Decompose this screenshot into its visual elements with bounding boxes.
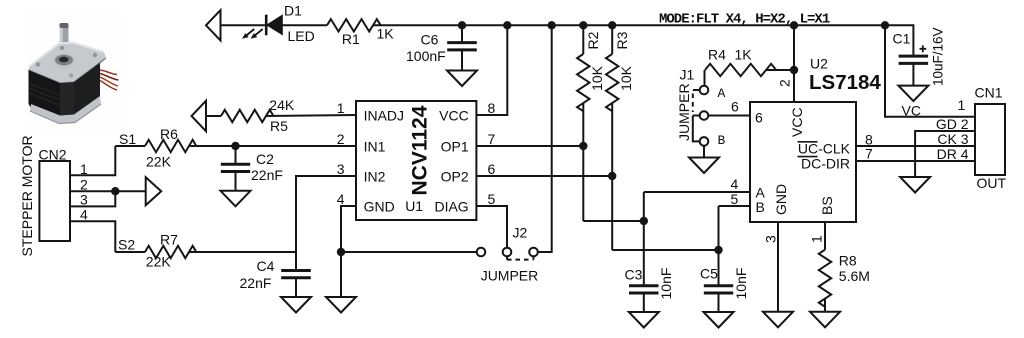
svg-text:VC: VC bbox=[902, 103, 921, 119]
svg-text:3: 3 bbox=[80, 192, 88, 208]
ground C2 bbox=[221, 191, 251, 207]
svg-text:C4: C4 bbox=[257, 258, 275, 274]
svg-text:4: 4 bbox=[731, 176, 739, 192]
svg-text:2: 2 bbox=[777, 79, 793, 87]
svg-text:1: 1 bbox=[337, 100, 345, 116]
svg-text:5: 5 bbox=[731, 191, 739, 207]
wire C6 top bbox=[461, 25, 463, 42]
wire S1 left bbox=[115, 145, 145, 147]
wire OP1 bbox=[476, 145, 583, 147]
svg-text:R6: R6 bbox=[160, 126, 178, 142]
ground U1 bbox=[326, 297, 356, 313]
svg-text:OP2: OP2 bbox=[441, 169, 469, 185]
jumper J2 pad2 bbox=[503, 248, 512, 257]
ground C6 bbox=[447, 71, 477, 87]
svg-text:STEPPER MOTOR: STEPPER MOTOR bbox=[19, 135, 35, 256]
svg-text:2: 2 bbox=[337, 131, 345, 147]
svg-text:MODE:FLT X4, H=X2, L=X1: MODE:FLT X4, H=X2, L=X1 bbox=[659, 12, 830, 28]
wire GD bbox=[915, 131, 975, 177]
wire OP2 bbox=[476, 175, 612, 177]
svg-text:22K: 22K bbox=[146, 154, 172, 170]
svg-text:R4: R4 bbox=[708, 47, 726, 63]
svg-text:C5: C5 bbox=[700, 265, 718, 281]
J2 dashed link bbox=[507, 259, 534, 261]
svg-text:22nF: 22nF bbox=[251, 167, 283, 183]
svg-text:S2: S2 bbox=[118, 237, 135, 253]
capacitor C2 bbox=[221, 164, 250, 171]
svg-text:24K: 24K bbox=[269, 97, 295, 113]
svg-text:CN2: CN2 bbox=[39, 147, 67, 163]
svg-text:10K: 10K bbox=[589, 65, 605, 91]
svg-text:6: 6 bbox=[755, 110, 763, 126]
wire J1 A stub bbox=[693, 89, 700, 91]
svg-text:GD 2: GD 2 bbox=[936, 116, 969, 132]
diode D1 LED bbox=[242, 15, 282, 39]
node GND net bbox=[337, 248, 345, 256]
J2 link stubs bbox=[506, 256, 508, 259]
svg-text:U1: U1 bbox=[405, 198, 423, 214]
svg-text:7: 7 bbox=[865, 145, 873, 161]
wire arrow to R5 bbox=[206, 115, 221, 117]
node rail R2 bbox=[579, 21, 587, 29]
svg-text:1: 1 bbox=[958, 97, 966, 113]
wire arrow to LED bbox=[221, 24, 267, 26]
wire R4 to VCC riser bbox=[766, 69, 794, 71]
svg-text:S1: S1 bbox=[119, 131, 136, 147]
wire C5 gnd bbox=[718, 293, 720, 312]
wire C4 top bbox=[295, 252, 297, 271]
wire U2 VCC riser bbox=[793, 25, 795, 102]
capacitor C3 bbox=[629, 286, 659, 293]
svg-text:5.6M: 5.6M bbox=[839, 268, 870, 284]
svg-text:22nF: 22nF bbox=[240, 275, 272, 291]
connector CN1 bbox=[975, 104, 1005, 175]
wire CN2 pin2 bbox=[70, 190, 146, 192]
svg-text:JUMPER: JUMPER bbox=[676, 83, 692, 141]
resistor R7 bbox=[145, 246, 196, 258]
wire C2 top bbox=[235, 146, 237, 164]
svg-text:A: A bbox=[718, 86, 726, 101]
resistor R4 bbox=[705, 64, 776, 76]
svg-text:GND: GND bbox=[773, 184, 789, 215]
svg-text:R7: R7 bbox=[160, 231, 178, 247]
capacitor C6 bbox=[447, 43, 477, 50]
svg-text:1K: 1K bbox=[735, 47, 753, 63]
wire U2 B bbox=[719, 205, 751, 207]
wire R5 to INADJ bbox=[266, 115, 356, 116]
resistor R3 bbox=[606, 25, 719, 250]
svg-text:IN2: IN2 bbox=[364, 169, 386, 185]
svg-text:D1: D1 bbox=[284, 2, 302, 18]
node R4 VCC bbox=[790, 66, 798, 74]
svg-text:R3: R3 bbox=[614, 31, 630, 49]
svg-text:6: 6 bbox=[488, 161, 496, 177]
svg-text:C6: C6 bbox=[421, 32, 439, 48]
svg-text:INADJ: INADJ bbox=[364, 108, 404, 124]
wire A net bbox=[643, 192, 645, 286]
svg-text:3: 3 bbox=[337, 161, 345, 177]
arrow R5 return bbox=[192, 101, 207, 131]
IC U2 box bbox=[750, 102, 856, 222]
svg-text:R1: R1 bbox=[342, 31, 360, 47]
svg-text:VCC: VCC bbox=[789, 107, 805, 137]
arrow LED return bbox=[206, 10, 221, 40]
node CN2 pins 2-3 bbox=[111, 187, 119, 195]
wire J1 mid stub bbox=[693, 115, 700, 117]
J1 dashed link bbox=[692, 94, 694, 113]
resistor R8 bbox=[819, 250, 831, 307]
node rail U1VCC bbox=[503, 21, 511, 29]
ground C4 bbox=[281, 297, 311, 313]
jumper J1 padA bbox=[700, 86, 709, 95]
wire U2 DIR bbox=[856, 160, 975, 162]
svg-text:10K: 10K bbox=[618, 65, 634, 91]
connector CN2 bbox=[39, 161, 70, 241]
ground C5 bbox=[704, 312, 734, 328]
ground C1 bbox=[898, 86, 928, 102]
svg-text:DC-DIR: DC-DIR bbox=[801, 155, 850, 171]
node OP2 R3 bbox=[608, 172, 616, 180]
svg-text:C1: C1 bbox=[893, 31, 911, 47]
wire C2 bottom bbox=[235, 172, 237, 191]
node C2 junction bbox=[231, 142, 239, 150]
wire CN2 pin3 bbox=[70, 191, 115, 206]
U2 UC-CLK bbox=[798, 141, 851, 157]
wire C3 gnd bbox=[643, 293, 645, 312]
svg-text:22K: 22K bbox=[146, 254, 172, 270]
capacitor C4 bbox=[281, 271, 311, 278]
node rail J2 bbox=[548, 21, 556, 29]
svg-text:3: 3 bbox=[763, 235, 779, 243]
IC U1 box bbox=[356, 101, 476, 220]
jumper J1 pad mid bbox=[700, 111, 709, 120]
svg-text:IN1: IN1 bbox=[364, 139, 386, 155]
jumper J2 pad3 bbox=[529, 248, 538, 257]
node rail R4 bbox=[790, 21, 798, 29]
node rail VC bbox=[881, 21, 889, 29]
node rail R3 bbox=[608, 21, 616, 29]
ground GD bbox=[900, 177, 930, 193]
wire R7 to IN2 node bbox=[189, 251, 296, 253]
wire J1 A to R4 bbox=[704, 70, 706, 86]
svg-text:10uF/16V: 10uF/16V bbox=[931, 27, 946, 86]
wire CN2 pin4 to S2 bbox=[70, 221, 115, 252]
svg-text:DIAG: DIAG bbox=[434, 199, 468, 215]
wire VC bbox=[885, 25, 975, 116]
svg-text:OP1: OP1 bbox=[441, 139, 469, 155]
svg-text:J2: J2 bbox=[513, 225, 528, 241]
resistor R5 bbox=[221, 110, 274, 122]
svg-text:8: 8 bbox=[488, 100, 496, 116]
resistor R6 bbox=[145, 140, 196, 152]
svg-text:OUT: OUT bbox=[977, 175, 1007, 191]
svg-text:R5: R5 bbox=[270, 118, 288, 134]
stepper motor photo bbox=[23, 12, 123, 130]
wire top rail bbox=[373, 25, 913, 56]
wire U2 GND pin bbox=[777, 222, 779, 312]
svg-text:10nF: 10nF bbox=[733, 268, 749, 300]
svg-text:VCC: VCC bbox=[439, 108, 469, 124]
svg-text:DR 4: DR 4 bbox=[937, 146, 969, 162]
C1 plus bbox=[920, 45, 927, 52]
svg-text:CK 3: CK 3 bbox=[937, 131, 968, 147]
resistor R2 bbox=[577, 25, 644, 221]
wire S2 left bbox=[115, 251, 145, 253]
svg-text:C2: C2 bbox=[256, 151, 274, 167]
node B net bbox=[714, 246, 722, 254]
wire U2 A bbox=[644, 191, 750, 193]
wire LED to R1 bbox=[282, 24, 327, 26]
svg-text:7: 7 bbox=[488, 131, 496, 147]
svg-text:NCV1124: NCV1124 bbox=[409, 105, 432, 195]
svg-text:10nF: 10nF bbox=[658, 268, 674, 300]
wire U2 BS pin bbox=[824, 222, 826, 250]
wire R6 to IN1 bbox=[189, 145, 356, 147]
svg-text:4: 4 bbox=[337, 191, 345, 207]
node rail C6 bbox=[458, 21, 466, 29]
wire J1 mid-B link bbox=[693, 116, 700, 142]
svg-text:5: 5 bbox=[488, 191, 496, 207]
resistor R1 bbox=[327, 19, 381, 31]
ground U2 bbox=[763, 312, 793, 328]
jumper J1 padB bbox=[700, 137, 709, 146]
arrow CN2 common bbox=[146, 177, 162, 205]
wire IN2 riser bbox=[296, 176, 356, 252]
jumper J2 pad1 bbox=[477, 248, 486, 257]
svg-text:1: 1 bbox=[809, 235, 825, 243]
svg-text:6: 6 bbox=[731, 99, 739, 115]
wire DIAG bbox=[476, 206, 507, 248]
svg-text:100nF: 100nF bbox=[406, 48, 446, 64]
ground C3 bbox=[629, 312, 659, 328]
U2 DC-DIR bbox=[798, 155, 851, 171]
svg-text:J1: J1 bbox=[680, 67, 695, 83]
svg-text:LED: LED bbox=[288, 28, 315, 44]
capacitor C5 bbox=[704, 286, 733, 293]
svg-text:B: B bbox=[718, 133, 726, 148]
wire J1 B gnd bbox=[703, 146, 705, 158]
wire J1 mid to U2 bbox=[708, 115, 750, 117]
svg-text:UC-CLK: UC-CLK bbox=[798, 141, 851, 157]
wire CN2 pin1 to S1 bbox=[70, 146, 115, 175]
svg-text:U2: U2 bbox=[810, 56, 828, 72]
wire B net bbox=[718, 206, 720, 286]
svg-text:JUMPER: JUMPER bbox=[481, 267, 539, 283]
ground J1 bbox=[689, 158, 719, 174]
wire C1 gnd bbox=[912, 63, 914, 85]
node A net bbox=[640, 217, 648, 225]
node OP1 R2 bbox=[579, 142, 587, 150]
svg-text:CN1: CN1 bbox=[975, 85, 1003, 101]
wire GND to J2 bbox=[341, 251, 477, 253]
svg-text:BS: BS bbox=[819, 196, 835, 215]
wire U1 GND pin4 bbox=[341, 206, 356, 297]
svg-text:LS7184: LS7184 bbox=[809, 71, 881, 94]
wire R8 gnd bbox=[824, 299, 826, 312]
wire C6 bottom bbox=[461, 50, 463, 71]
svg-text:R2: R2 bbox=[585, 31, 601, 49]
svg-text:B: B bbox=[756, 199, 765, 215]
svg-text:C3: C3 bbox=[625, 267, 643, 283]
wire J2 to rail bbox=[538, 25, 552, 252]
svg-text:GND: GND bbox=[364, 199, 395, 215]
svg-text:1K: 1K bbox=[377, 26, 395, 42]
capacitor C1 bbox=[899, 56, 929, 63]
wire U1 VCC pin8 bbox=[476, 25, 507, 115]
wire U2 CLK bbox=[856, 145, 975, 147]
wire C4 bottom bbox=[295, 278, 297, 297]
svg-text:R8: R8 bbox=[839, 252, 857, 268]
ground R8 bbox=[810, 312, 840, 328]
